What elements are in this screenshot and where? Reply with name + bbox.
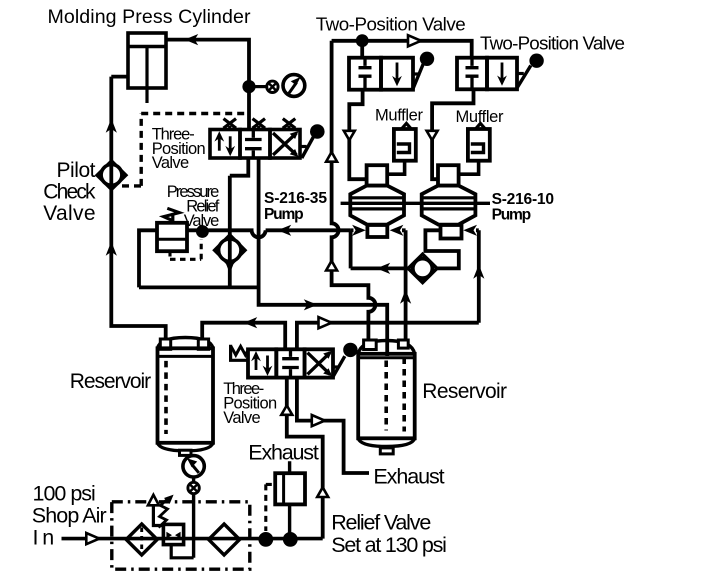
svg-text:Pump: Pump xyxy=(264,206,304,223)
svg-text:Exhaust: Exhaust xyxy=(373,465,444,489)
wire 2pos valve B to pump2 top port xyxy=(432,89,473,179)
valve V1 three-position body xyxy=(210,130,300,159)
FRL dash-dot enclosure xyxy=(112,502,250,569)
muffler M2 xyxy=(459,121,490,174)
wire vertical x331 with hop over relief line xyxy=(332,41,376,341)
svg-text:Molding Press Cylinder: Molding Press Cylinder xyxy=(48,6,251,28)
pump P1 S-216-35 xyxy=(350,165,404,237)
svg-text:Muffler: Muffler xyxy=(375,107,424,125)
wire reservoir1 right port to valve V2 top xyxy=(202,323,285,350)
arrow right on y305 line xyxy=(304,299,318,310)
open triangle up on relief riser xyxy=(317,487,328,497)
wire FRL vent line xyxy=(153,505,163,526)
arrow left on reservoir1 right line xyxy=(244,317,258,328)
arrow left into pump1 port right xyxy=(390,225,404,236)
check valve CV2 below valve V1 xyxy=(215,235,245,265)
open triangle up FRL vent xyxy=(148,495,159,506)
wire two-position supply line xyxy=(332,41,472,58)
open triangle up on x331 line upper xyxy=(326,152,337,162)
arrow left on cylinder line xyxy=(185,34,199,45)
valve V2 right square crossed arrows xyxy=(308,351,333,377)
open triangle down on pump1 feed xyxy=(344,131,355,140)
arrow up on reservoir2 right column xyxy=(400,290,411,304)
arrow right into pump1 port xyxy=(352,225,366,236)
svg-text:Set at 130 psi: Set at 130 psi xyxy=(331,533,447,557)
svg-text:Two-Position Valve: Two-Position Valve xyxy=(480,33,625,54)
dashed pilot under relief valve xyxy=(170,239,201,259)
valve V1 middle square blocked symbol xyxy=(245,130,262,159)
wire pump loop left leg xyxy=(351,230,409,268)
pump centerline xyxy=(341,202,490,205)
ARROWS-SOLID xyxy=(106,34,485,328)
pressure gauge top xyxy=(283,75,305,97)
wire pump2 right leg xyxy=(476,230,479,322)
FRL regulator xyxy=(159,495,184,545)
valve V1 lever and knob xyxy=(300,124,325,158)
open arrow right on shop air line xyxy=(86,533,99,544)
valve V1 left square arrows xyxy=(219,136,230,150)
svg-text:Check: Check xyxy=(43,180,96,203)
dashed pilot to exhaust relief xyxy=(266,484,275,531)
wire FRL regulator U loop xyxy=(171,545,193,558)
arrow up on left column lower xyxy=(106,242,117,256)
junction dot cylinder line xyxy=(242,80,255,93)
shutoff circle-x symbol top xyxy=(267,81,278,92)
wire reservoir ports top line right of valve V2 xyxy=(297,323,479,350)
svg-text:Two-Position Valve: Two-Position Valve xyxy=(316,13,466,34)
valve V2 spring xyxy=(231,345,249,361)
svg-text:S-216-10: S-216-10 xyxy=(492,191,555,208)
reservoir R1 gauge xyxy=(183,456,204,494)
wire valve V2 exhaust A to relief column xyxy=(287,378,323,539)
FRL lubricator diamond xyxy=(209,524,240,555)
solid arrow down on CV2 column xyxy=(224,259,235,273)
valve V2 left square arrows xyxy=(256,356,268,371)
2-position valve A body xyxy=(349,52,434,90)
svg-text:Reservoir: Reservoir xyxy=(422,380,507,403)
open triangle up on x331 line lower xyxy=(326,261,337,271)
valve V1 right square crossed arrows xyxy=(273,131,299,157)
valve V2 three-position body xyxy=(248,349,333,377)
arrow left into pump2 port right xyxy=(463,225,477,236)
arrow left on relief line xyxy=(278,225,292,236)
valve V2 lever and knob xyxy=(333,343,358,377)
svg-text:Shop Air: Shop Air xyxy=(32,504,107,528)
svg-text:Valve: Valve xyxy=(223,409,261,427)
svg-text:In: In xyxy=(33,525,55,549)
wire relief valve line with under-hop xyxy=(139,230,351,287)
wire pump1 right to reservoir2 column xyxy=(402,230,406,340)
arrow up on left column upper xyxy=(106,119,117,133)
open arrow right on two-position line xyxy=(408,35,421,46)
reservoir R1 xyxy=(158,338,214,456)
pump P2 S-216-10 xyxy=(422,165,476,238)
arrow up on pump2 right leg xyxy=(473,265,484,279)
svg-text:Exhaust: Exhaust xyxy=(248,440,319,464)
wire cylinder left port and left column to reservoir1 left port xyxy=(111,77,165,345)
svg-text:100 psi: 100 psi xyxy=(33,482,96,506)
arrow left on pump loop line xyxy=(377,263,391,274)
check valve CV3 between pump bottoms xyxy=(408,254,437,282)
wire valve V2 exhaust B to Exhaust label xyxy=(297,378,369,473)
cylinder Molding Press xyxy=(128,33,166,103)
junction dot two-position line xyxy=(356,34,369,47)
2-position valve B body xyxy=(457,54,544,90)
ARROWS-OPEN xyxy=(86,35,437,544)
valve V1 pilot X marks xyxy=(224,119,296,130)
wire check valve3 right and S-jog to pump2 bottom port xyxy=(425,230,458,268)
reservoir R2 xyxy=(358,340,415,454)
wire gauge branch at junction xyxy=(256,85,267,88)
pilot check valve CV1 xyxy=(97,161,126,189)
exhaust relief valve component xyxy=(275,473,305,504)
svg-text:S-216-35: S-216-35 xyxy=(264,190,327,207)
junction dot bottom 1 xyxy=(258,532,273,547)
svg-text:Reservoir: Reservoir xyxy=(70,370,151,393)
pressure relief valve PRV xyxy=(157,208,187,251)
wire horizontal y287 xyxy=(139,285,259,289)
muffler M1 xyxy=(387,121,416,174)
svg-text:Valve: Valve xyxy=(43,202,95,225)
svg-text:Pump: Pump xyxy=(492,206,532,223)
valve V2 middle square blocked symbol xyxy=(282,349,299,377)
junction dot relief line xyxy=(196,225,209,238)
wire 2pos valve A to pump1 top port xyxy=(349,90,366,180)
open arrow right on y420 line xyxy=(312,415,325,426)
wire 2pos valve A feed stem xyxy=(360,41,364,58)
open triangle up on valve V2 exhaust A xyxy=(281,405,292,414)
wire cylinder cap to junction and valve V1 top xyxy=(166,40,249,130)
LABELS-TEXT xyxy=(32,6,625,557)
svg-text:Relief Valve: Relief Valve xyxy=(331,511,431,535)
wire valve V1 bottom port B down to reservoir2 dome feed xyxy=(259,158,388,356)
junction dot bottom 2 xyxy=(283,532,298,547)
wire valve V1 bottom port A jog to check valve column xyxy=(230,158,249,287)
svg-text:Valve: Valve xyxy=(152,154,190,172)
dashed pilot line from check valve to valve V1 box xyxy=(122,114,245,186)
wire exhaust relief component stems xyxy=(288,461,291,539)
wire into pump1 left xyxy=(351,228,354,232)
FRL filter diamond xyxy=(126,524,157,555)
open arrow right on y322 line xyxy=(319,317,332,328)
open triangle down on pump2 feed xyxy=(427,131,438,140)
wire bottom main air line xyxy=(62,537,323,541)
wire reservoir1 gauge column xyxy=(192,477,195,558)
svg-text:Pilot: Pilot xyxy=(57,159,96,182)
